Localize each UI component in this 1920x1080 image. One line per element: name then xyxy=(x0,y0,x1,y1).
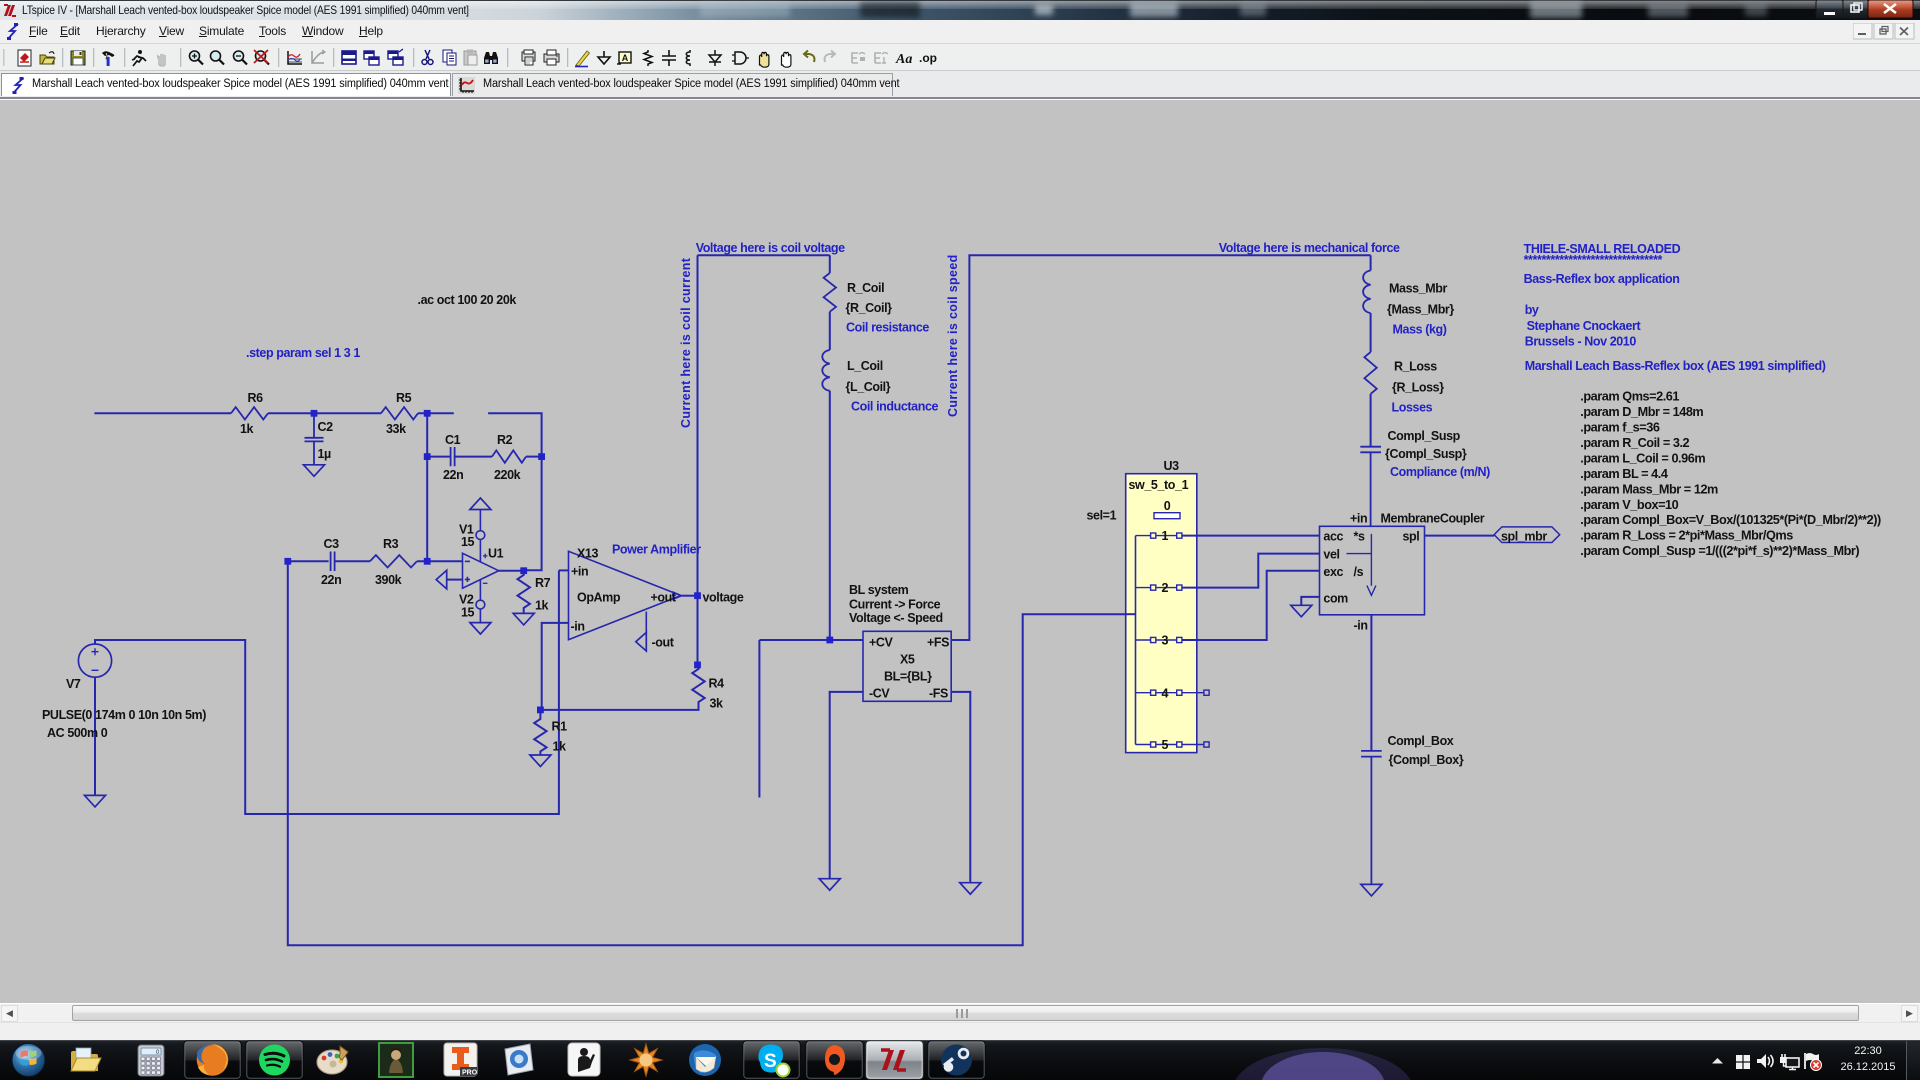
wire xyxy=(1370,255,1372,270)
node junction xyxy=(694,662,701,669)
svg-text:5: 5 xyxy=(1162,738,1169,752)
tray network xyxy=(1780,1054,1799,1070)
wire xyxy=(540,708,698,710)
resistor R3 xyxy=(370,555,417,567)
pin 5 xyxy=(1136,744,1177,746)
svg-text:PULSE(0 174m 0 10n 10n 5m): PULSE(0 174m 0 10n 10n 5m) xyxy=(42,708,206,722)
svg-text:+in: +in xyxy=(1350,512,1367,526)
svg-text:390k: 390k xyxy=(375,573,402,587)
pin 4 xyxy=(1136,692,1177,694)
svg-text:BL={BL}: BL={BL} xyxy=(884,670,932,684)
wire xyxy=(1370,313,1372,352)
pin -in wire xyxy=(542,623,569,710)
start orb xyxy=(12,1044,45,1077)
svg-text:4: 4 xyxy=(1162,686,1169,700)
wire U1 out xyxy=(499,570,524,572)
svg-text:OpAmp: OpAmp xyxy=(577,591,621,605)
pin 3 xyxy=(1136,639,1177,641)
wire xyxy=(427,456,450,458)
svg-text:3k: 3k xyxy=(710,697,724,711)
taskbar skype xyxy=(743,1041,800,1079)
svg-text:22n: 22n xyxy=(443,468,463,482)
svg-text:.param D_Mbr = 148m: .param D_Mbr = 148m xyxy=(1580,405,1703,419)
wire voltage vertical xyxy=(697,255,699,665)
svg-text:.param L_Coil = 0.96m: .param L_Coil = 0.96m xyxy=(1580,451,1705,465)
node junction xyxy=(538,453,545,460)
wire dangling xyxy=(758,640,760,798)
svg-text:1k: 1k xyxy=(240,422,254,436)
svg-text:R2: R2 xyxy=(497,433,513,447)
tray windows icon xyxy=(1736,1055,1750,1069)
svg-text:.param R_Coil = 3.2: .param R_Coil = 3.2 xyxy=(1580,436,1689,450)
wire xyxy=(1126,613,1136,615)
svg-text:spl: spl xyxy=(1403,530,1420,544)
svg-text:+FS: +FS xyxy=(927,636,949,650)
power flag +15 xyxy=(470,498,491,510)
svg-text:*s: *s xyxy=(1354,530,1365,544)
svg-text:Bass-Reflex box application: Bass-Reflex box application xyxy=(1524,272,1680,286)
svg-text:R7: R7 xyxy=(535,576,551,590)
svg-text:MembraneCoupler: MembraneCoupler xyxy=(1381,512,1485,526)
svg-text:.step param sel 1 3 1: .step param sel 1 3 1 xyxy=(246,346,360,360)
capacitor C2 xyxy=(305,413,324,464)
svg-text:-out: -out xyxy=(652,636,675,650)
svg-text:U1: U1 xyxy=(488,547,504,561)
wire pin3 to exc xyxy=(1182,571,1320,640)
svg-text:R_Coil: R_Coil xyxy=(847,281,884,295)
svg-text:sel=1: sel=1 xyxy=(1087,509,1117,523)
svg-text:1k: 1k xyxy=(553,740,567,754)
wire xyxy=(829,312,831,350)
capacitor Compl_Susp xyxy=(1360,447,1381,527)
svg-text:V2: V2 xyxy=(459,593,474,607)
resistor R_Coil xyxy=(824,273,836,312)
capacitor Compl_Box xyxy=(1361,751,1382,884)
svg-text:******************************: ******************************* xyxy=(1524,253,1663,267)
svg-text:+out: +out xyxy=(651,591,677,605)
svg-text:Current here is coil speed: Current here is coil speed xyxy=(946,254,960,417)
svg-text:.param V_box=10: .param V_box=10 xyxy=(1580,498,1678,512)
ground xyxy=(513,613,534,625)
svg-text:PRO: PRO xyxy=(462,1070,478,1077)
svg-text:1µ: 1µ xyxy=(318,447,332,461)
ground xyxy=(1291,605,1312,617)
resistor R6 xyxy=(231,407,268,419)
window buttons xyxy=(1815,0,1915,20)
wire V7 to +in xyxy=(95,570,559,814)
svg-text:+in: +in xyxy=(571,565,588,579)
svg-text:sw_5_to_1: sw_5_to_1 xyxy=(1129,478,1189,492)
svg-text:-in: -in xyxy=(1354,619,1368,633)
svg-text:Compliance (m/N): Compliance (m/N) xyxy=(1390,465,1490,479)
svg-text:Mass_Mbr: Mass_Mbr xyxy=(1389,282,1447,296)
ground xyxy=(960,883,981,895)
svg-text:voltage: voltage xyxy=(703,591,744,605)
svg-text:{L_Coil}: {L_Coil} xyxy=(846,380,891,394)
wire pin1 to acc xyxy=(1182,535,1320,537)
node junction xyxy=(311,410,318,417)
svg-text:15: 15 xyxy=(461,535,475,549)
wire xyxy=(1370,394,1372,446)
taskbar paint icon xyxy=(317,1046,348,1074)
svg-text:33k: 33k xyxy=(386,422,406,436)
svg-text:Marshall Leach Bass-Reflex box: Marshall Leach Bass-Reflex box (AES 1991… xyxy=(1525,359,1826,373)
node junction xyxy=(284,558,291,565)
node junction xyxy=(424,453,431,460)
box U2 MembraneCoupler xyxy=(1320,526,1425,615)
svg-text:/s: /s xyxy=(1354,565,1364,579)
svg-text:.ac oct 100 20 20k: .ac oct 100 20 20k xyxy=(418,293,517,307)
svg-text:Coil resistance: Coil resistance xyxy=(846,321,929,335)
switch U3 box xyxy=(1126,474,1197,753)
svg-text:R5: R5 xyxy=(396,391,412,405)
node junction xyxy=(826,637,833,644)
taskbar firefox xyxy=(184,1041,241,1079)
ground xyxy=(530,755,551,767)
svg-text:exc: exc xyxy=(1323,565,1343,579)
pin 2 xyxy=(1136,587,1177,589)
resistor R2 xyxy=(492,450,526,462)
taskbar spotify xyxy=(246,1041,303,1079)
taskbar image icon xyxy=(379,1043,413,1077)
wire xyxy=(829,391,831,640)
svg-text:A: A xyxy=(622,53,629,63)
svg-text:Coil inductance: Coil inductance xyxy=(851,400,939,414)
resistor R7 xyxy=(518,571,530,613)
wire xyxy=(829,255,831,273)
wire xyxy=(94,677,96,795)
bus xyxy=(1135,536,1137,745)
node junction xyxy=(424,558,431,565)
svg-text:0: 0 xyxy=(1164,499,1171,513)
voltage source V7 xyxy=(78,644,111,677)
svg-text:X13: X13 xyxy=(577,547,598,561)
svg-text:X5: X5 xyxy=(900,653,915,667)
node junction xyxy=(520,567,527,574)
svg-text:Power Amplifier: Power Amplifier xyxy=(612,543,701,557)
resistor R_Loss xyxy=(1364,352,1376,394)
svg-text:AC 500m 0: AC 500m 0 xyxy=(47,726,108,740)
wire pin2 to vel xyxy=(1182,554,1320,588)
svg-text:1k: 1k xyxy=(535,599,549,613)
svg-text:1: 1 xyxy=(1162,529,1169,543)
svg-text:Aa: Aa xyxy=(895,52,912,67)
svg-text:spl_mbr: spl_mbr xyxy=(1501,530,1547,544)
svg-text:Compl_Susp: Compl_Susp xyxy=(1388,429,1461,443)
svg-text:R4: R4 xyxy=(709,677,725,691)
wire xyxy=(455,456,492,458)
ground xyxy=(1361,884,1382,896)
svg-text:Stephane Cnockaert: Stephane Cnockaert xyxy=(1527,319,1642,333)
inductor Mass_Mbr xyxy=(1363,271,1371,314)
com arrow at U1 + input xyxy=(447,579,463,581)
inner s arrow xyxy=(1367,534,1376,595)
op-amp X13 xyxy=(569,551,681,639)
svg-text:Compl_Box: Compl_Box xyxy=(1388,734,1454,748)
wire +CV xyxy=(759,639,863,641)
node junction xyxy=(537,707,544,714)
inductor L_Coil xyxy=(822,350,830,391)
taskbar folder icon xyxy=(71,1048,101,1071)
node flag spl_mbr xyxy=(1494,527,1560,543)
svg-text:Mass (kg): Mass (kg) xyxy=(1393,323,1447,337)
wire loop C3 to U3 xyxy=(288,561,1130,945)
svg-text:{Mass_Mbr}: {Mass_Mbr} xyxy=(1387,303,1454,317)
wire +FS xyxy=(951,255,1370,640)
slider 0 xyxy=(1154,513,1180,519)
ground xyxy=(819,879,840,891)
svg-text:U3: U3 xyxy=(1164,459,1180,473)
tray flag xyxy=(1805,1053,1822,1071)
svg-text:Voltage here is coil voltage: Voltage here is coil voltage xyxy=(696,241,845,255)
wire xyxy=(314,412,381,414)
svg-text:by: by xyxy=(1525,303,1539,317)
box X5 xyxy=(863,631,951,701)
taskbar mathematica icon xyxy=(630,1044,662,1076)
svg-text:R6: R6 xyxy=(248,391,264,405)
svg-text:.param Qms=2.61: .param Qms=2.61 xyxy=(1580,390,1679,404)
wire pin5 stub xyxy=(1182,744,1204,746)
ground under V2 xyxy=(470,623,491,635)
wire pin4 stub xyxy=(1182,692,1204,694)
svg-text:BL system: BL system xyxy=(849,583,909,597)
svg-text:C1: C1 xyxy=(445,433,461,447)
svg-text:.param Compl_Box=V_Box/(101325: .param Compl_Box=V_Box/(101325*(Pi*(D_Mb… xyxy=(1580,513,1881,527)
svg-text:-CV: -CV xyxy=(869,687,890,701)
svg-text:R3: R3 xyxy=(383,537,399,551)
taskbar calculator icon xyxy=(138,1045,164,1076)
svg-text:2: 2 xyxy=(1162,581,1169,595)
tray speaker xyxy=(1757,1054,1773,1068)
wire spl xyxy=(1425,535,1495,537)
svg-text:Brussels - Nov 2010: Brussels - Nov 2010 xyxy=(1525,335,1637,349)
taskbar origin xyxy=(806,1041,863,1079)
svg-text:{R_Coil}: {R_Coil} xyxy=(846,301,893,315)
taskbar media icon xyxy=(505,1044,533,1075)
wire -FS to ground xyxy=(951,692,970,882)
svg-text:{Compl_Box}: {Compl_Box} xyxy=(1389,753,1464,767)
ground xyxy=(85,795,106,807)
tray up arrow xyxy=(1712,1058,1723,1064)
wire xyxy=(335,560,370,562)
capacitor C1 xyxy=(451,447,455,466)
wire xyxy=(488,413,541,570)
node junction xyxy=(424,410,431,417)
wire xyxy=(94,412,231,414)
taskbar steam xyxy=(928,1041,985,1079)
svg-text:C2: C2 xyxy=(318,420,334,434)
pin 1 xyxy=(1136,535,1177,537)
wire xyxy=(418,412,454,414)
op-amp U1 xyxy=(463,509,499,622)
wire coil voltage top xyxy=(698,254,830,256)
resistor R4 xyxy=(692,665,704,708)
taskbar ipro icon xyxy=(444,1043,478,1077)
svg-text:V7: V7 xyxy=(66,677,81,691)
taskbar person icon xyxy=(568,1043,600,1076)
svg-text:.param f_s=36: .param f_s=36 xyxy=(1580,421,1660,435)
svg-text:.param Mass_Mbr = 12m: .param Mass_Mbr = 12m xyxy=(1580,482,1718,496)
-out pin xyxy=(645,612,647,633)
svg-text:{Compl_Susp}: {Compl_Susp} xyxy=(1385,447,1467,461)
svg-text:.param Compl_Susp =1/(((2*pi*f: .param Compl_Susp =1/(((2*pi*f_s)**2)*Ma… xyxy=(1580,544,1859,558)
wire xyxy=(268,412,314,414)
svg-text:Losses: Losses xyxy=(1392,401,1433,415)
pin +in xyxy=(559,569,569,571)
svg-text:Current here is coil current: Current here is coil current xyxy=(679,257,693,428)
svg-text:-FS: -FS xyxy=(929,687,948,701)
resistor R1 xyxy=(534,710,546,755)
svg-text:C3: C3 xyxy=(324,537,340,551)
svg-text:acc: acc xyxy=(1323,530,1343,544)
wire xyxy=(417,560,463,562)
svg-text:-in: -in xyxy=(571,620,585,634)
svg-text:3: 3 xyxy=(1162,634,1169,648)
taskbar thunderbird icon xyxy=(689,1044,721,1076)
svg-text:Current -> Force: Current -> Force xyxy=(849,598,941,612)
svg-text:+CV: +CV xyxy=(869,636,894,650)
node junction xyxy=(694,592,701,599)
wire +out to voltage node xyxy=(682,595,698,597)
svg-text:vel: vel xyxy=(1323,548,1339,562)
svg-text:L_Coil: L_Coil xyxy=(847,359,883,373)
svg-text:Voltage <- Speed: Voltage <- Speed xyxy=(849,611,943,625)
wire com to ground xyxy=(1301,597,1319,605)
svg-text:com: com xyxy=(1323,592,1348,606)
svg-text:15: 15 xyxy=(461,606,475,620)
svg-text:R_Loss: R_Loss xyxy=(1394,360,1437,374)
svg-text:.param R_Loss = 2*pi*Mass_Mbr/: .param R_Loss = 2*pi*Mass_Mbr/Qms xyxy=(1580,529,1793,543)
MDI child buttons xyxy=(1853,23,1915,40)
wire -CV to ground xyxy=(830,692,863,878)
wire xyxy=(526,456,542,458)
wire xyxy=(426,413,428,561)
svg-text:22n: 22n xyxy=(321,573,341,587)
resistor R5 xyxy=(381,407,418,419)
svg-text:.param BL = 4.4: .param BL = 4.4 xyxy=(1580,467,1668,481)
svg-text:{R_Loss}: {R_Loss} xyxy=(1392,381,1444,395)
svg-text:R1: R1 xyxy=(552,720,568,734)
svg-text:220k: 220k xyxy=(494,468,521,482)
ground xyxy=(304,465,325,477)
svg-text:S: S xyxy=(764,1051,777,1072)
svg-text:.op: .op xyxy=(919,51,937,65)
svg-text:Voltage here is mechanical for: Voltage here is mechanical force xyxy=(1219,241,1400,255)
capacitor C3 xyxy=(331,552,335,572)
wire xyxy=(288,560,329,562)
taskbar ltspice active xyxy=(866,1041,923,1079)
wire xyxy=(1370,615,1372,750)
